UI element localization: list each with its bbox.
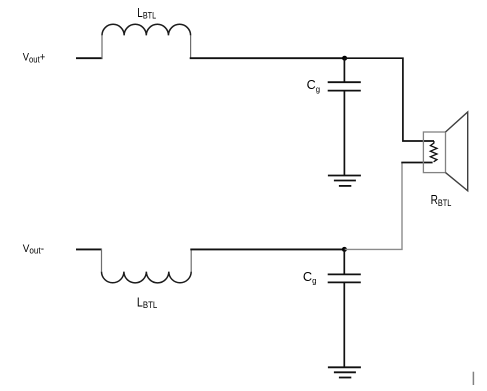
node junction bottom (dot) [342,247,347,252]
svg-text:Cg: Cg [303,269,317,286]
wire cap bottom to ground [343,282,345,367]
wire cap top to ground [343,91,345,176]
inductor L2 (LBTL bottom) right leg [190,249,192,272]
svg-text:LBTL: LBTL [137,5,156,22]
inductor L2 (LBTL bottom) coils [102,272,192,283]
capacitor Cg bottom plate 1 [328,273,361,275]
wire speaker bottom terminal [401,162,432,164]
inductor L1 (LBTL top) right leg [190,35,192,58]
inductor L1 (LBTL top) left leg [101,35,103,58]
capacitor Cg top plate 2 [328,90,361,92]
ground bottom [328,367,361,377]
svg-text:Vout-: Vout- [23,243,44,256]
resistor RBTL zigzag [430,141,437,162]
wire Vout+ lead-in [76,57,103,59]
node junction top (dot) [342,56,347,61]
wire top main [190,57,345,59]
speaker cone [446,112,468,191]
svg-text:Cg: Cg [307,77,320,94]
inductor L2 (LBTL bottom) left leg [101,249,103,272]
wire top to speaker [345,58,434,141]
inductor L1 (LBTL top) coils [102,24,191,35]
capacitor Cg top lead [343,58,345,82]
svg-text:RBTL: RBTL [431,192,452,209]
svg-text:Vout+: Vout+ [23,52,45,65]
ground top [328,176,361,186]
speaker body box [423,132,445,173]
capacitor Cg bottom lead [343,249,345,274]
wire bottom main [190,248,345,250]
cursor artifact bottom right [472,372,474,385]
wire bottom to speaker (gray) [344,163,402,250]
svg-text:LBTL: LBTL [137,294,157,311]
wire Vout- lead-in [76,248,102,250]
capacitor Cg bottom plate 2 [328,281,361,283]
capacitor Cg top plate 1 [328,81,361,83]
